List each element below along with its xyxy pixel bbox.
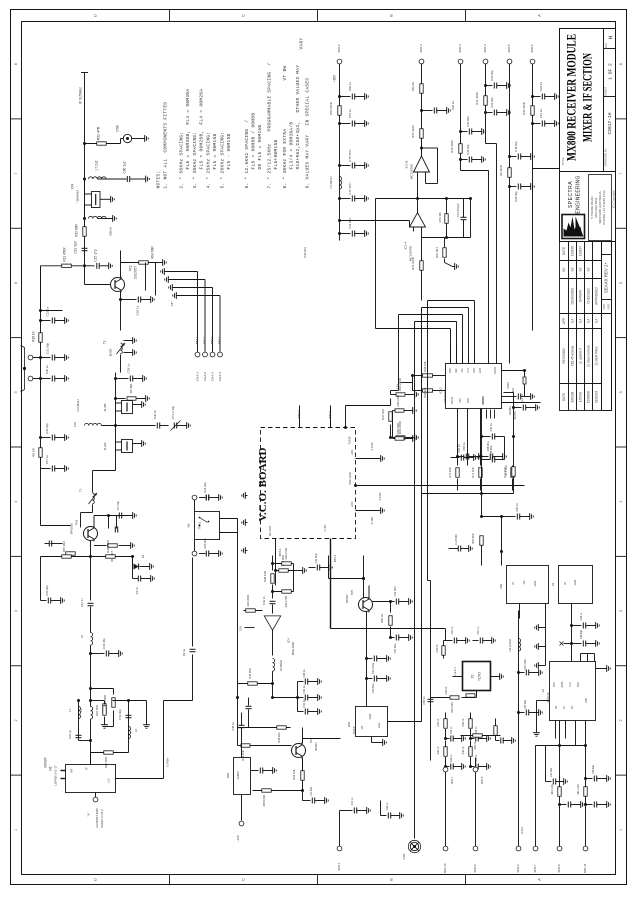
svg-text:2: 2	[14, 719, 18, 721]
svg-text:SPD-1: SPD-1	[337, 862, 341, 871]
svg-text:A: A	[537, 14, 542, 17]
svg-text:3: 3	[14, 610, 18, 612]
svg-text:VDD: VDD	[467, 398, 470, 403]
svg-text:L5: L5	[80, 635, 84, 639]
svg-text:XL3/A: XL3/A	[103, 443, 107, 451]
svg-text:LO: LO	[106, 778, 110, 783]
svg-text:SPECTRA: SPECTRA	[568, 181, 574, 208]
svg-text:CHA-4: CHA-4	[218, 372, 222, 381]
svg-text:2SC3357: 2SC3357	[133, 266, 137, 280]
svg-text:6. * 12.5KHz SPACING /: 6. * 12.5KHz SPACING /	[245, 120, 250, 189]
svg-text:L4: L4	[134, 729, 138, 733]
svg-text:C23 60p: C23 60p	[490, 97, 494, 108]
svg-text:6/02/98: 6/02/98	[570, 391, 574, 402]
svg-text:(!) SER PINS: (!) SER PINS	[594, 347, 598, 366]
svg-text:DATE: DATE	[562, 247, 566, 255]
svg-text:BAT-1: BAT-1	[333, 554, 337, 562]
svg-text:C57 60a: C57 60a	[524, 699, 527, 709]
svg-text:FL5 - 90M15B: FL5 - 90M15B	[227, 134, 232, 170]
svg-text:4. * 25KHz SPACING;: 4. * 25KHz SPACING;	[207, 132, 212, 189]
svg-text:C13 1u: C13 1u	[539, 109, 543, 118]
svg-text:IC4: IC4	[286, 638, 290, 643]
svg-text:12A05: 12A05	[236, 771, 240, 780]
svg-text:5-1P6: 5-1P6	[370, 516, 374, 524]
svg-text:SPD-10: SPD-10	[443, 863, 447, 873]
svg-text:C71 2-10p: C71 2-10p	[171, 406, 175, 420]
svg-text:C46 1u: C46 1u	[231, 722, 235, 731]
svg-text:2: 2	[619, 719, 623, 721]
svg-text:+CO: +CO	[350, 501, 354, 508]
svg-text:PROGRAMMABLE SPACING /: PROGRAMMABLE SPACING /	[268, 63, 273, 132]
svg-text:R47 22K: R47 22K	[381, 409, 385, 420]
svg-text:C40 1n: C40 1n	[302, 685, 306, 694]
svg-text:R60 60R: R60 60R	[471, 533, 475, 543]
svg-text:DATA: DATA	[561, 681, 564, 687]
svg-text:1 OF 2: 1 OF 2	[608, 63, 614, 80]
svg-text:VR4: VR4	[226, 772, 230, 778]
svg-text:A: A	[537, 878, 542, 881]
svg-text:L7: L7	[68, 709, 72, 713]
svg-text:TCXO: TCXO	[477, 672, 481, 681]
svg-text:TST: TST	[459, 398, 462, 403]
svg-text:CHECKED: CHECKED	[586, 288, 590, 304]
svg-text:C50 60a: C50 60a	[371, 683, 375, 693]
svg-text:C64 1u: C64 1u	[451, 626, 454, 634]
svg-text:R19 68R: R19 68R	[74, 224, 78, 237]
svg-text:C36 18p: C36 18p	[102, 638, 106, 649]
svg-text:R61 110R: R61 110R	[577, 784, 580, 795]
svg-text:C30 60p: C30 60p	[466, 116, 470, 127]
svg-text:IC1-A: IC1-A	[403, 242, 407, 250]
svg-text:TR2: TR2	[74, 519, 78, 525]
svg-text:(!) update if: (!) update if	[578, 348, 582, 364]
svg-text:SHEET 2 OF 2: SHEET 2 OF 2	[100, 809, 104, 828]
svg-text:MX800 RECEIVER MODULE: MX800 RECEIVER MODULE	[564, 34, 578, 161]
svg-text:C30 3u: C30 3u	[153, 410, 157, 419]
svg-text:SUP-AUX: SUP-AUX	[348, 472, 352, 485]
svg-text:11/6/97: 11/6/97	[578, 246, 582, 257]
svg-text:SPD-5: SPD-5	[507, 44, 511, 53]
svg-text:R22 56R: R22 56R	[95, 705, 99, 716]
svg-text:D: D	[93, 14, 98, 17]
svg-text:XX 110R: XX 110R	[499, 165, 503, 176]
svg-text:R70 100R: R70 100R	[411, 257, 415, 270]
svg-text:VT BW: VT BW	[283, 66, 288, 81]
svg-text:R48 12R: R48 12R	[263, 571, 267, 582]
svg-text:C46 60p: C46 60p	[466, 144, 470, 155]
svg-text:BAT-2: BAT-2	[203, 336, 207, 344]
svg-text:FL3/4 = 90M30A/B: FL3/4 = 90M30A/B	[290, 122, 295, 170]
svg-text:C48 60A: C48 60A	[489, 445, 493, 455]
svg-text:C31 60p: C31 60p	[45, 342, 49, 354]
svg-text:2-PH6: 2-PH6	[370, 442, 374, 450]
svg-text:CN2: CN2	[402, 853, 406, 859]
svg-text:3: 3	[619, 610, 623, 612]
svg-text:C33 60a: C33 60a	[303, 247, 307, 258]
svg-text:C36 1u: C36 1u	[451, 101, 455, 110]
svg-text:C23 1n: C23 1n	[45, 306, 49, 316]
svg-text:TR5: TR5	[350, 589, 354, 595]
svg-text:CS817-1H: CS817-1H	[607, 112, 613, 134]
svg-text:R60 110R: R60 110R	[551, 784, 554, 795]
svg-text:SPD-11: SPD-11	[583, 863, 587, 873]
svg-text:SPD-2: SPD-2	[516, 864, 520, 873]
svg-text:R48 1K: R48 1K	[437, 746, 440, 754]
svg-text:R42 270R: R42 270R	[284, 596, 288, 608]
svg-text:R48 1K: R48 1K	[462, 746, 465, 754]
svg-text:C7 60p: C7 60p	[116, 501, 120, 510]
svg-text:1: 1	[619, 829, 623, 831]
svg-text:APPROVED: APPROVED	[594, 286, 598, 304]
svg-text:5: 5	[14, 391, 18, 393]
svg-text:145170/D2: 145170/D2	[443, 389, 447, 403]
svg-text:C69 1u: C69 1u	[580, 612, 583, 620]
svg-text:R73 1M: R73 1M	[438, 212, 442, 222]
svg-text:SPD-2: SPD-2	[337, 44, 341, 53]
svg-text:GND: GND	[368, 713, 372, 719]
svg-text:R50 100R: R50 100R	[451, 702, 454, 713]
svg-text:REFBa: REFBa	[508, 406, 512, 415]
svg-text:Vin: Vin	[522, 580, 526, 584]
svg-text:R38 2K2: R38 2K2	[277, 732, 281, 743]
svg-text:MIXER: MIXER	[43, 757, 47, 768]
svg-text:C4x 60a: C4x 60a	[310, 786, 313, 796]
svg-text:R11 450R: R11 450R	[62, 247, 66, 262]
svg-text:IC1-B: IC1-B	[404, 161, 408, 169]
svg-text:C61 1u: C61 1u	[477, 626, 480, 634]
svg-text:C18 1u: C18 1u	[126, 363, 130, 373]
svg-text:12V: 12V	[238, 626, 242, 631]
svg-text:REFIN: REFIN	[451, 397, 454, 404]
svg-text:(C) Copyright: (C) Copyright	[611, 190, 615, 208]
svg-text:FL5 = 90M20B, FL4 = 90M20A: FL5 = 90M20B, FL4 = 90M20A	[200, 89, 205, 170]
svg-text:ENGINEERING: ENGINEERING	[575, 175, 581, 213]
svg-text:L6 390nH: L6 390nH	[279, 660, 283, 671]
svg-text:SHEET: SHEET	[604, 87, 608, 97]
svg-text:R46 220R: R46 220R	[396, 423, 400, 435]
svg-text:R5 39R: R5 39R	[129, 384, 133, 393]
svg-text:C44 1u: C44 1u	[351, 797, 354, 805]
svg-text:EJ: EJ	[594, 319, 598, 323]
svg-text:+12V+: +12V+	[520, 826, 524, 834]
svg-text:SEAXX REV 2+: SEAXX REV 2+	[604, 262, 609, 294]
svg-text:BC807: BC807	[314, 742, 318, 751]
svg-text:"A": "A"	[86, 812, 90, 816]
svg-text:GND: GND	[533, 580, 537, 586]
svg-text:C9 1u: C9 1u	[182, 648, 186, 656]
svg-text:R44 270R: R44 270R	[284, 548, 288, 560]
svg-text:TR2: TR2	[128, 265, 132, 271]
svg-text:VCC: VCC	[553, 682, 556, 687]
svg-text:C19 3p3: C19 3p3	[73, 241, 77, 253]
svg-text:R18+R62,C58+3p3,: R18+R62,C58+3p3,	[296, 122, 301, 170]
svg-text:C14 470pF: C14 470pF	[456, 203, 460, 217]
svg-text:R70 10R: R70 10R	[504, 465, 508, 475]
svg-text:FL5 = 90M15B: FL5 = 90M15B	[213, 134, 218, 170]
svg-text:C52 470a: C52 470a	[524, 659, 527, 670]
svg-text:C65 1u: C65 1u	[457, 444, 461, 453]
svg-text:EJ: EJ	[570, 319, 574, 323]
svg-text:EJ: EJ	[578, 319, 582, 323]
svg-text:SPD-6: SPD-6	[530, 44, 534, 53]
svg-text:VR3: VR3	[347, 721, 351, 727]
svg-text:GND: GND	[585, 698, 588, 704]
svg-text:B: B	[389, 878, 394, 881]
svg-text:15/08/00: 15/08/00	[586, 391, 590, 404]
svg-text:C30 1u: C30 1u	[386, 802, 389, 810]
svg-text:R50 100R: R50 100R	[329, 102, 333, 115]
svg-text:R56 10K: R56 10K	[292, 769, 296, 779]
svg-text:R32 220R: R32 220R	[522, 102, 526, 115]
svg-text:5: 5	[619, 391, 623, 393]
svg-text:C41 60p: C41 60p	[314, 553, 318, 563]
svg-text:M309: M309	[108, 348, 112, 356]
svg-text:R6A 40K: R6A 40K	[482, 395, 485, 405]
svg-text:CHA-2: CHA-2	[203, 372, 207, 381]
svg-text:1-PH6: 1-PH6	[378, 492, 382, 500]
svg-text:OSC: OSC	[449, 368, 452, 373]
svg-text:FIN: FIN	[461, 368, 464, 372]
svg-text:C60 60p: C60 60p	[203, 538, 207, 549]
svg-text:EJ: EJ	[578, 267, 582, 271]
svg-text:XL3/B: XL3/B	[103, 404, 107, 412]
svg-text:VTRA: VTRA	[506, 382, 510, 389]
svg-text:FL5 = 90M30B, FL4 = 90M30A: FL5 = 90M30B, FL4 = 90M30A	[186, 89, 191, 170]
svg-text:11/6/95: 11/6/95	[570, 246, 574, 257]
svg-text:+12 A+?: +12 A+?	[454, 666, 457, 676]
svg-text:C30 1u: C30 1u	[45, 365, 49, 374]
svg-text:T1: T1	[102, 340, 106, 344]
svg-text:RF: RF	[69, 768, 73, 772]
svg-text:C28 1u: C28 1u	[475, 726, 478, 734]
svg-text:4: 4	[619, 501, 623, 503]
svg-text:R52 47R: R52 47R	[96, 126, 100, 140]
svg-text:Vin: Vin	[360, 725, 364, 729]
svg-text:C80 1u: C80 1u	[515, 503, 519, 512]
svg-text:BAT-4: BAT-4	[218, 336, 222, 344]
svg-text:PRE: PRE	[577, 682, 580, 687]
svg-text:C36 60a: C36 60a	[592, 764, 595, 774]
svg-text:R30 110R: R30 110R	[450, 140, 454, 152]
svg-text:C6 1n: C6 1n	[135, 586, 139, 594]
svg-text:1: 1	[14, 829, 18, 831]
svg-text:C34 60p: C34 60p	[45, 423, 49, 434]
svg-text:MSA-0686: MSA-0686	[291, 641, 295, 655]
svg-text:+1768+: +1768+	[165, 757, 169, 767]
svg-text:BAT-3: BAT-3	[210, 336, 214, 344]
svg-text:D1: D1	[141, 554, 145, 558]
svg-text:C31 60a: C31 60a	[550, 767, 553, 777]
svg-text:C22 1p: C22 1p	[68, 730, 72, 739]
svg-text:C28 60p: C28 60p	[514, 191, 518, 202]
svg-text:SPD-7: SPD-7	[533, 864, 537, 873]
svg-text:7. * 25/12.5KHz: 7. * 25/12.5KHz	[268, 144, 273, 189]
svg-text:C12 1n: C12 1n	[80, 598, 84, 607]
svg-text:X2: X2	[470, 674, 474, 678]
svg-text:C4x 1n: C4x 1n	[262, 596, 266, 605]
svg-text:X1: X1	[541, 688, 545, 692]
svg-text:PER: PER	[607, 304, 611, 310]
svg-text:REF: REF	[455, 368, 458, 373]
svg-text:C65 1u: C65 1u	[462, 442, 466, 451]
svg-text:R43 390R: R43 390R	[246, 595, 250, 607]
svg-text:R50 110R: R50 110R	[411, 125, 415, 137]
svg-text:R49 4K: R49 4K	[445, 686, 448, 694]
svg-text:SPD-4: SPD-4	[419, 44, 423, 53]
svg-text:REVISION: REVISION	[562, 348, 566, 364]
svg-text:R15 2R2: R15 2R2	[62, 541, 66, 552]
svg-text:R16 220R: R16 220R	[106, 540, 110, 553]
svg-text:R20 56R: R20 56R	[104, 757, 108, 768]
svg-text:8: 8	[619, 63, 623, 65]
svg-text:SPD-5: SPD-5	[480, 776, 484, 784]
svg-text:XF4: XF4	[70, 183, 74, 189]
svg-text:GND: GND	[573, 579, 577, 585]
svg-text:REF: REF	[602, 303, 606, 309]
svg-text:C+07 60R: C+07 60R	[455, 534, 458, 545]
svg-text:BFG591: BFG591	[69, 523, 73, 535]
svg-text:SPD-8: SPD-8	[557, 864, 561, 873]
svg-text:C51 60a: C51 60a	[393, 643, 397, 653]
svg-text:IF 915MHz: IF 915MHz	[78, 87, 82, 104]
svg-text:R35 10K: R35 10K	[423, 387, 427, 397]
svg-text:C53 470a: C53 470a	[371, 662, 375, 674]
svg-text:R31 110R: R31 110R	[475, 92, 479, 104]
svg-text:APP: APP	[562, 318, 566, 324]
svg-text:FL5+90M15B: FL5+90M15B	[274, 140, 279, 170]
svg-text:+7.6V: +7.6V	[323, 525, 327, 533]
svg-text:C: C	[241, 14, 246, 17]
svg-text:7: 7	[14, 173, 18, 175]
svg-text:X3: X3	[551, 582, 555, 586]
svg-text:BAT-1: BAT-1	[195, 336, 199, 344]
svg-text:C40 1u: C40 1u	[489, 423, 493, 432]
svg-text:C28 1u: C28 1u	[450, 726, 453, 734]
svg-text:LOCK: LOCK	[493, 367, 497, 374]
svg-text:C28 1u: C28 1u	[450, 754, 453, 762]
svg-text:LDFMS-2-D-17: LDFMS-2-D-17	[53, 765, 57, 786]
svg-text:R70 10R: R70 10R	[448, 467, 452, 477]
svg-text:DESIGNED: DESIGNED	[570, 287, 574, 304]
svg-text:C18 60p: C18 60p	[514, 141, 518, 152]
svg-text:CHA-1: CHA-1	[195, 372, 199, 381]
svg-text:H: H	[608, 35, 614, 39]
svg-text:200nH: 200nH	[108, 227, 112, 236]
svg-text:5. * 20KHz SPACING;: 5. * 20KHz SPACING;	[221, 132, 226, 189]
svg-text:+0 FRONT END: +0 FRONT END	[95, 808, 99, 828]
svg-text:C8 *: C8 *	[170, 300, 174, 306]
svg-text:SPD-7: SPD-7	[450, 776, 454, 784]
svg-text:C10 40p: C10 40p	[118, 709, 122, 720]
svg-text:K9: K9	[186, 523, 190, 527]
svg-text:REV: REV	[604, 43, 608, 49]
svg-text:* 90MA5A: * 90MA5A	[75, 190, 79, 204]
svg-text:L5 390nH: L5 390nH	[329, 176, 333, 188]
svg-text:C31 60a: C31 60a	[393, 586, 397, 596]
svg-text:C33 60a: C33 60a	[348, 218, 352, 229]
svg-text:DATE: DATE	[562, 393, 566, 401]
svg-text:R58 100R: R58 100R	[262, 795, 266, 807]
svg-text:MIXER & IF SECTION: MIXER & IF SECTION	[580, 53, 594, 142]
svg-text:M1: M1	[48, 766, 52, 771]
svg-text:SPD-3: SPD-3	[458, 44, 462, 53]
svg-text:R40 220R: R40 220R	[396, 395, 400, 407]
svg-text:C24 1u: C24 1u	[539, 82, 543, 91]
svg-text:1/05/99: 1/05/99	[578, 391, 582, 402]
svg-text:DAT: DAT	[473, 368, 476, 373]
svg-text:SPD-9: SPD-9	[473, 864, 477, 873]
svg-text:C17 1u: C17 1u	[45, 455, 49, 464]
svg-text:(!) chas remove: (!) chas remove	[586, 345, 590, 367]
svg-text:12V: 12V	[395, 384, 399, 389]
svg-text:R18 1K: R18 1K	[31, 330, 35, 342]
svg-text:2. * 50KHz SPACING;: 2. * 50KHz SPACING;	[180, 132, 185, 189]
svg-text:L11 100uH: L11 100uH	[508, 639, 512, 652]
svg-text:3. * 30KHz SPACING;: 3. * 30KHz SPACING;	[193, 132, 198, 189]
svg-text:ENB: ENB	[479, 368, 482, 373]
svg-text:+36V: +36V	[332, 74, 336, 82]
svg-text:PHONE +61 8 9248 2733: PHONE +61 8 9248 2733	[602, 190, 606, 224]
svg-text:C: C	[241, 878, 246, 881]
svg-text:CN6: CN6	[115, 125, 119, 132]
svg-text:1. NOT ALL COMPONENTS FITTED: 1. NOT ALL COMPONENTS FITTED	[164, 102, 169, 189]
svg-text:31/01/03: 31/01/03	[594, 391, 598, 404]
svg-text:CLK: CLK	[569, 682, 572, 687]
svg-text:C77 470n: C77 470n	[348, 182, 352, 195]
svg-text:C68 60p: C68 60p	[580, 629, 583, 639]
svg-text:R71 10R: R71 10R	[471, 467, 475, 477]
svg-text:NOTES:: NOTES:	[157, 171, 162, 189]
svg-text:4: 4	[14, 501, 18, 503]
svg-text:9. VALUES MAY VARY: 9. VALUES MAY VARY	[306, 135, 311, 189]
svg-text:Vout: Vout	[377, 723, 381, 728]
svg-text:C75 470n: C75 470n	[348, 149, 352, 162]
svg-text:EJ: EJ	[586, 319, 590, 323]
svg-text:T3: T3	[78, 488, 82, 492]
svg-text:IF: IF	[84, 767, 88, 770]
svg-text:OR FL5 = 90M15B: OR FL5 = 90M15B	[258, 125, 263, 170]
svg-text:R9 6R: R9 6R	[31, 447, 35, 456]
svg-text:SPD-4: SPD-4	[483, 44, 487, 53]
svg-text:R70 4R7: R70 4R7	[435, 247, 439, 258]
svg-text:TUNE: TUNE	[347, 436, 351, 444]
svg-text:EJ: EJ	[570, 267, 574, 271]
svg-text:C58 1n: C58 1n	[422, 696, 426, 705]
svg-text:R56 1K: R56 1K	[380, 614, 384, 623]
svg-text:C38 1u: C38 1u	[302, 669, 306, 678]
svg-text:12V: 12V	[73, 422, 77, 427]
svg-text:6: 6	[619, 282, 623, 284]
svg-text:78L05: 78L05	[352, 726, 356, 734]
svg-text:R6x 4K: R6x 4K	[411, 82, 415, 91]
svg-text:R52 4K: R52 4K	[474, 741, 477, 749]
svg-text:L7 2u2: L7 2u2	[94, 160, 98, 170]
svg-text:C60 1u2: C60 1u2	[122, 161, 126, 173]
svg-text:RF OUT: RF OUT	[268, 525, 272, 536]
svg-text:EJ: EJ	[586, 267, 590, 271]
svg-text:R48 1K: R48 1K	[437, 718, 440, 726]
svg-text:MC33078D: MC33078D	[409, 163, 413, 179]
svg-text:6: 6	[14, 282, 18, 284]
svg-text:V.C.O. BOARD: V.C.O. BOARD	[258, 447, 269, 521]
svg-text:C15 17p: C15 17p	[93, 249, 97, 261]
svg-text:CHA-3: CHA-3	[210, 372, 214, 381]
svg-text:BAT-3: BAT-3	[328, 410, 332, 418]
svg-text:7: 7	[619, 173, 623, 175]
svg-text:C22 60p: C22 60p	[490, 70, 494, 81]
svg-text:8. * 30KHz FOR EXTRA: 8. * 30KHz FOR EXTRA	[283, 129, 288, 189]
svg-text:R48 1K: R48 1K	[462, 718, 465, 726]
